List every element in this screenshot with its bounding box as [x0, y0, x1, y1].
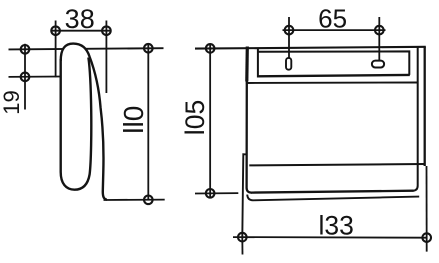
svg-text:65: 65: [318, 3, 347, 33]
side view outer flap curve + top cap: [61, 44, 107, 200]
back plate inner rectangle: [258, 48, 409, 78]
dimension 133: line: [233, 236, 427, 239]
wire: 133 right extension: [426, 166, 428, 252]
dimension 65: line: [283, 29, 386, 31]
wire: reference line B: [9, 76, 62, 78]
dimension 38: left circle: [51, 26, 60, 35]
back plate bottom edge: [257, 75, 410, 76]
dimension 105: bottom circle: [206, 189, 215, 198]
wire: lower hem line: [246, 82, 418, 85]
front view cover lower front edge: [249, 164, 424, 165]
svg-text:ll0: ll0: [118, 106, 149, 134]
dimension 105: vertical line: [209, 44, 211, 198]
wire: 105 bottom extension: [195, 192, 238, 194]
dimension 110: vertical line: [147, 44, 149, 201]
front view cover bottom edge: [251, 191, 414, 193]
wire: 65 left extension: [288, 17, 290, 58]
dimension 110: bottom circle: [144, 196, 153, 205]
front view left outer edge (thick upper part): [245, 47, 249, 82]
dimension 19: top circle: [21, 45, 30, 54]
dimension 38: right circle: [102, 26, 111, 35]
front view left outer edge with rounded bottom corner: [247, 81, 252, 193]
right screw slot (horizontal pill): [372, 61, 384, 68]
side view arm: left edge + U bottom + inner right curve: [61, 58, 92, 190]
svg-text:l33: l33: [319, 211, 354, 241]
svg-text:l05: l05: [180, 100, 210, 135]
dimension 19: bottom circle: [21, 73, 30, 82]
front view right outer edge: [424, 47, 426, 166]
svg-text:38: 38: [65, 4, 95, 34]
wire: 38 right extension: [105, 21, 107, 94]
dimension 65: left circle: [285, 26, 294, 35]
wire: top reference line A: [9, 48, 164, 49]
dimension 65: right circle: [375, 26, 384, 35]
wire: top edge + 105 top extension: [195, 47, 426, 49]
dimension 38: line: [51, 30, 111, 32]
front view left arm edge + step: [242, 154, 247, 237]
dimension 133: right circle: [422, 233, 431, 242]
dimension 105: top circle: [206, 44, 215, 53]
dimension 19: vertical line: [24, 44, 26, 110]
wire: 38 left extension: [55, 21, 57, 78]
left screw slot (vertical pill): [286, 58, 291, 70]
side-view part: white fill body hiding line A: [61, 44, 107, 200]
front view inner right vertical with rounded corner: [413, 47, 418, 191]
wire: flap bottom extension: [104, 199, 165, 201]
dimension 110: top circle: [144, 44, 153, 53]
dimension 133: left circle: [238, 233, 247, 242]
wire: 133 left extension tail: [241, 237, 243, 255]
wire: 65 right extension: [378, 17, 380, 60]
front view roll bottom line with left upturn: [247, 195, 419, 201]
svg-text:19: 19: [0, 90, 24, 114]
